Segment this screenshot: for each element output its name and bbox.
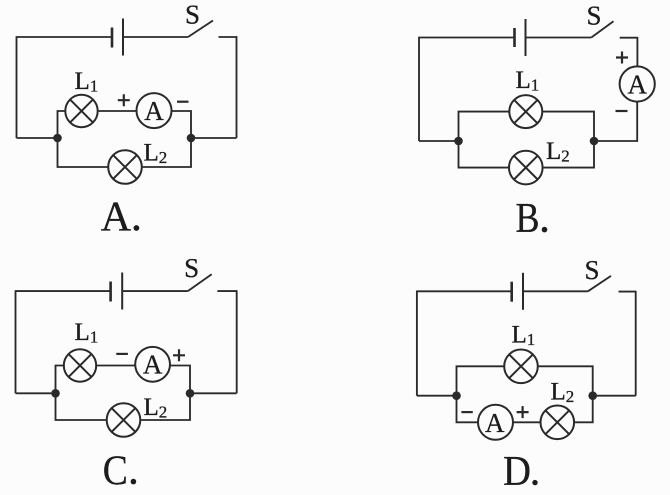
svg-text:A: A xyxy=(627,69,647,99)
wire lamp L1 to ammeter A xyxy=(98,110,137,112)
svg-text:L1: L1 xyxy=(516,67,540,95)
wire left node down to lamp L2 branch C xyxy=(56,393,107,420)
svg-text:D: D xyxy=(503,449,531,495)
polarity + (circuit B) xyxy=(616,52,628,64)
node junction right A xyxy=(187,134,196,143)
wire top-left horizontal D xyxy=(417,290,512,292)
node junction left C xyxy=(51,389,60,398)
node junction left A xyxy=(53,134,62,143)
wire left vertical D xyxy=(416,291,418,396)
wire lamp L1 to ammeter C xyxy=(96,365,135,367)
wire lamp L1 to right node D xyxy=(538,366,593,395)
wire switch to right corner A xyxy=(219,36,237,38)
wire right corner to right node D xyxy=(593,395,636,397)
wire left node up to lamp L1 branch C xyxy=(56,366,64,394)
wire left edge to left node D xyxy=(417,395,457,397)
svg-text:S: S xyxy=(184,253,199,283)
wire right vertical A xyxy=(236,36,238,138)
switch S blade D xyxy=(588,276,611,291)
polarity + (circuit C) xyxy=(173,349,185,361)
battery cell B (long positive plate) xyxy=(525,19,527,56)
wire left vertical B xyxy=(418,37,420,141)
svg-text:L2: L2 xyxy=(144,394,168,422)
switch S blade B xyxy=(591,21,613,37)
ammeter A1 (circuit C) xyxy=(135,347,170,382)
wire left node up to lamp L1 branch A xyxy=(58,111,66,138)
svg-text:L1: L1 xyxy=(512,322,536,350)
battery cell B (short negative plate) xyxy=(513,28,516,47)
polarity + (circuit D) xyxy=(517,406,529,418)
wire right vertical upper B xyxy=(636,37,638,67)
wire ammeter to right node A xyxy=(172,111,192,138)
battery cell D (long positive plate) xyxy=(522,273,524,310)
wire ammeter to right node C xyxy=(170,366,190,394)
wire battery to switch A xyxy=(123,36,188,38)
wire right vertical D xyxy=(635,291,637,396)
wire left node up to lamp L1 branch B xyxy=(459,112,510,141)
wire right vertical lower B xyxy=(594,102,637,141)
wire left vertical A xyxy=(16,36,18,138)
wire battery to switch C xyxy=(122,290,188,292)
svg-text:A: A xyxy=(144,96,164,126)
wire battery to switch B xyxy=(526,37,592,39)
polarity + (circuit A) xyxy=(118,94,130,106)
ammeter A1 (circuit B) xyxy=(620,66,655,101)
polarity − (circuit C) xyxy=(116,353,128,355)
wire top-left horizontal B xyxy=(419,37,515,39)
battery cell C (short negative plate) xyxy=(109,282,112,302)
ammeter A1 (circuit A) xyxy=(137,93,172,128)
svg-text:A: A xyxy=(485,408,505,438)
wire battery to switch D xyxy=(523,290,588,292)
lamp L1 (circuit B) xyxy=(509,95,542,128)
lamp L2 (circuit C) xyxy=(107,403,141,437)
battery cell A (long positive plate) xyxy=(122,19,124,56)
wire ammeter to lamp L2 D xyxy=(513,421,541,423)
polarity − (circuit A) xyxy=(177,101,189,103)
wire left node up to lamp L1 branch D xyxy=(457,366,505,395)
svg-text:L2: L2 xyxy=(546,138,570,166)
wire top-left horizontal C xyxy=(16,290,111,292)
node junction right B xyxy=(590,137,599,146)
svg-text:S: S xyxy=(586,0,601,30)
svg-text:C: C xyxy=(103,448,128,494)
node junction left B xyxy=(454,137,463,146)
svg-text:S: S xyxy=(584,255,599,285)
wire right corner to right node A xyxy=(191,137,237,139)
lamp L2 (circuit A) xyxy=(108,150,142,184)
wire top-left horizontal A xyxy=(17,36,113,38)
switch S blade A xyxy=(188,21,213,38)
wire switch to right corner B xyxy=(620,37,638,39)
battery cell C (long positive plate) xyxy=(121,273,123,310)
wire left edge to left node B xyxy=(419,140,459,142)
svg-text:B: B xyxy=(516,196,540,242)
wire right vertical C xyxy=(236,290,238,393)
svg-text:L2: L2 xyxy=(144,140,168,168)
lamp L2 (circuit B) xyxy=(509,151,543,185)
svg-text:L2: L2 xyxy=(551,379,575,407)
lamp L1 (circuit A) xyxy=(65,95,97,127)
wire right corner to right node C xyxy=(190,392,237,394)
svg-text:A: A xyxy=(143,350,163,380)
battery cell D (short negative plate) xyxy=(510,282,513,302)
battery cell A (short negative plate) xyxy=(111,28,114,48)
wire left node down to lamp L2 branch A xyxy=(58,138,109,167)
wire lamp L1 to right node B xyxy=(542,112,594,141)
wire lamp L2 to right node D xyxy=(574,396,593,423)
switch S blade C xyxy=(188,274,212,291)
svg-text:L1: L1 xyxy=(75,319,99,347)
wire left vertical C xyxy=(15,290,17,393)
wire lamp L2 to right node B xyxy=(543,141,594,168)
wire left edge to left node A xyxy=(17,137,58,139)
ammeter A1 (circuit D) xyxy=(478,405,513,440)
lamp L1 (circuit D) xyxy=(504,350,538,384)
svg-text:S: S xyxy=(185,0,200,30)
wire left node down to ammeter branch D xyxy=(457,396,479,423)
wire lamp L2 to right node A xyxy=(142,138,191,167)
svg-text:A: A xyxy=(101,195,132,241)
node junction right C xyxy=(186,389,195,398)
wire left edge to left node C xyxy=(16,392,56,394)
polarity − (circuit D) xyxy=(461,411,472,413)
wire lamp L2 to right node C xyxy=(140,393,190,420)
wire left node down to lamp L2 branch B xyxy=(459,141,510,168)
wire switch to right corner C xyxy=(217,290,236,292)
lamp L1 (circuit C) xyxy=(64,349,96,381)
svg-text:L1: L1 xyxy=(75,68,99,96)
node junction left D xyxy=(452,391,461,400)
node junction right D xyxy=(588,391,597,400)
lamp L2 (circuit D) xyxy=(541,406,575,440)
wire switch to right corner D xyxy=(619,291,636,293)
polarity − (circuit B) xyxy=(616,110,628,112)
